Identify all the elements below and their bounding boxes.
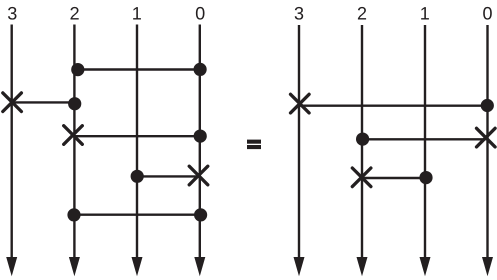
- gate X target gate3-left on q2: [64, 126, 83, 145]
- wire q2 left: [73, 25, 75, 260]
- arrow q0 left: [194, 257, 205, 276]
- node label 3 right: [295, 7, 304, 20]
- wire gate2-left CNOT(2->3): [12, 101, 75, 103]
- arrow q1 left: [132, 257, 143, 276]
- node label 2 right: [358, 7, 366, 20]
- arrow q0 right: [482, 257, 493, 276]
- wire q2 right: [361, 25, 363, 259]
- node control dot gate1-right on q0: [481, 99, 494, 112]
- wire gate5-left CZ(2,0): [74, 213, 201, 215]
- gate X target gate4-left on q0: [189, 166, 208, 185]
- wire gate2-right CNOT(2->0): [363, 138, 486, 140]
- arrow q2 left: [69, 257, 80, 276]
- gate X target gate2-right on q0: [477, 128, 496, 147]
- node label 2 left: [70, 7, 78, 20]
- node label 0 right: [483, 7, 492, 20]
- node label 0 left: [196, 7, 205, 20]
- node control dot gate5-left on q2: [67, 208, 80, 221]
- wire gate3-left CNOT(0->2): [73, 135, 200, 137]
- arrow q3 left: [6, 257, 17, 276]
- wire gate3-right CNOT(1->2): [362, 177, 426, 179]
- wire q1 right: [424, 25, 426, 259]
- wire gate1-left CZ(2,0): [74, 68, 200, 70]
- node control dot gate4-left on q1: [131, 170, 144, 183]
- gate X target gate3-right on q2: [352, 168, 371, 187]
- node label 1 left: [133, 7, 141, 19]
- node control dot gate3-right on q1: [419, 171, 432, 184]
- wire gate1-right CNOT(0->3): [299, 104, 487, 106]
- gate X target gate2-left on q3: [3, 93, 22, 112]
- node label 1 right: [421, 7, 429, 19]
- gate X target gate1-right on q3: [291, 94, 310, 113]
- wire q1 left: [136, 25, 138, 260]
- wire q0 left: [199, 25, 201, 260]
- node control dot gate2-right on q2: [356, 133, 369, 146]
- node control dot gate3-left on q0: [194, 130, 207, 143]
- wire q3 left: [10, 25, 12, 260]
- wire gate4-left CNOT(1->0): [137, 175, 198, 177]
- arrow q3 right: [294, 257, 305, 276]
- node label 3 left: [8, 7, 17, 20]
- arrow q1 right: [420, 257, 431, 276]
- equals sign bar top: [247, 140, 261, 144]
- node control dot gate5-left on q0: [194, 208, 207, 221]
- node control dot gate1-left on q2: [71, 63, 84, 76]
- wire q0 right: [486, 25, 488, 259]
- node control dot gate1-left on q0: [194, 63, 207, 76]
- arrow q2 right: [357, 257, 368, 276]
- node control dot gate2-left on q2: [68, 97, 81, 110]
- wire q3 right: [298, 25, 300, 259]
- equals sign bar bottom: [247, 145, 261, 149]
